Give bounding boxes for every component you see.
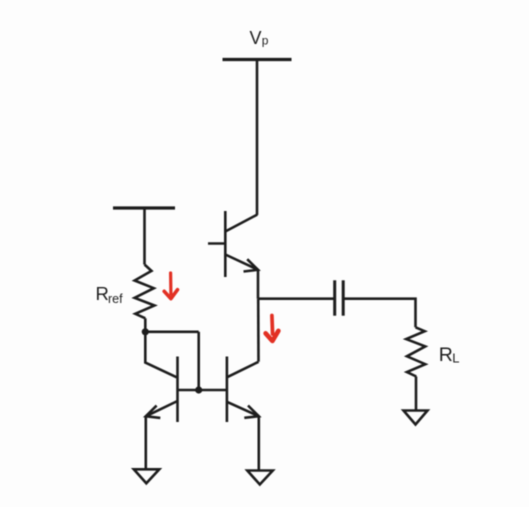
svg-text:V: V bbox=[250, 28, 262, 48]
svg-text:p: p bbox=[262, 34, 269, 48]
junction dot Rref node bbox=[142, 328, 149, 335]
current arrow Iref red bbox=[164, 273, 177, 299]
wire dot to base column bbox=[145, 330, 198, 333]
label RL bbox=[439, 344, 460, 366]
wire capacitor to RL bbox=[343, 299, 415, 328]
transistor Q1 bbox=[146, 357, 227, 423]
transistor Q3 bbox=[208, 211, 258, 277]
svg-text:R: R bbox=[439, 344, 453, 366]
svg-text:ref: ref bbox=[108, 292, 123, 306]
transistor Q2 bbox=[227, 357, 259, 423]
wire RL to ground bbox=[415, 377, 418, 411]
wire Q1 emitter to ground bbox=[145, 416, 148, 469]
capacitor C1 bbox=[335, 280, 344, 315]
wire Q3 emitter down to node bbox=[257, 270, 260, 299]
wire Q2 emitter to ground bbox=[257, 416, 260, 470]
wire base column down bbox=[197, 332, 200, 390]
wire node down to Q2 collector bbox=[257, 299, 260, 362]
power rail left bar bbox=[113, 206, 175, 209]
junction dot bases bbox=[195, 386, 202, 393]
resistor Rref bbox=[135, 265, 155, 319]
current arrow Iout red bbox=[266, 316, 279, 342]
wire Vp to Q3 collector bbox=[256, 60, 259, 216]
wire bar to Rref bbox=[143, 208, 146, 265]
wire node to capacitor bbox=[258, 297, 335, 300]
wire Rref to node dot bbox=[144, 318, 147, 332]
resistor RL bbox=[406, 327, 425, 376]
label Vp bbox=[250, 28, 269, 48]
ground Q1 bbox=[134, 469, 160, 483]
ground RL bbox=[404, 411, 428, 425]
wire dot down to Q1 collector bbox=[145, 332, 176, 378]
label Rref bbox=[96, 283, 124, 306]
ground Q2 bbox=[247, 471, 272, 485]
svg-text:R: R bbox=[96, 283, 109, 304]
svg-text:L: L bbox=[452, 351, 459, 366]
power rail Vp bar bbox=[223, 58, 292, 61]
